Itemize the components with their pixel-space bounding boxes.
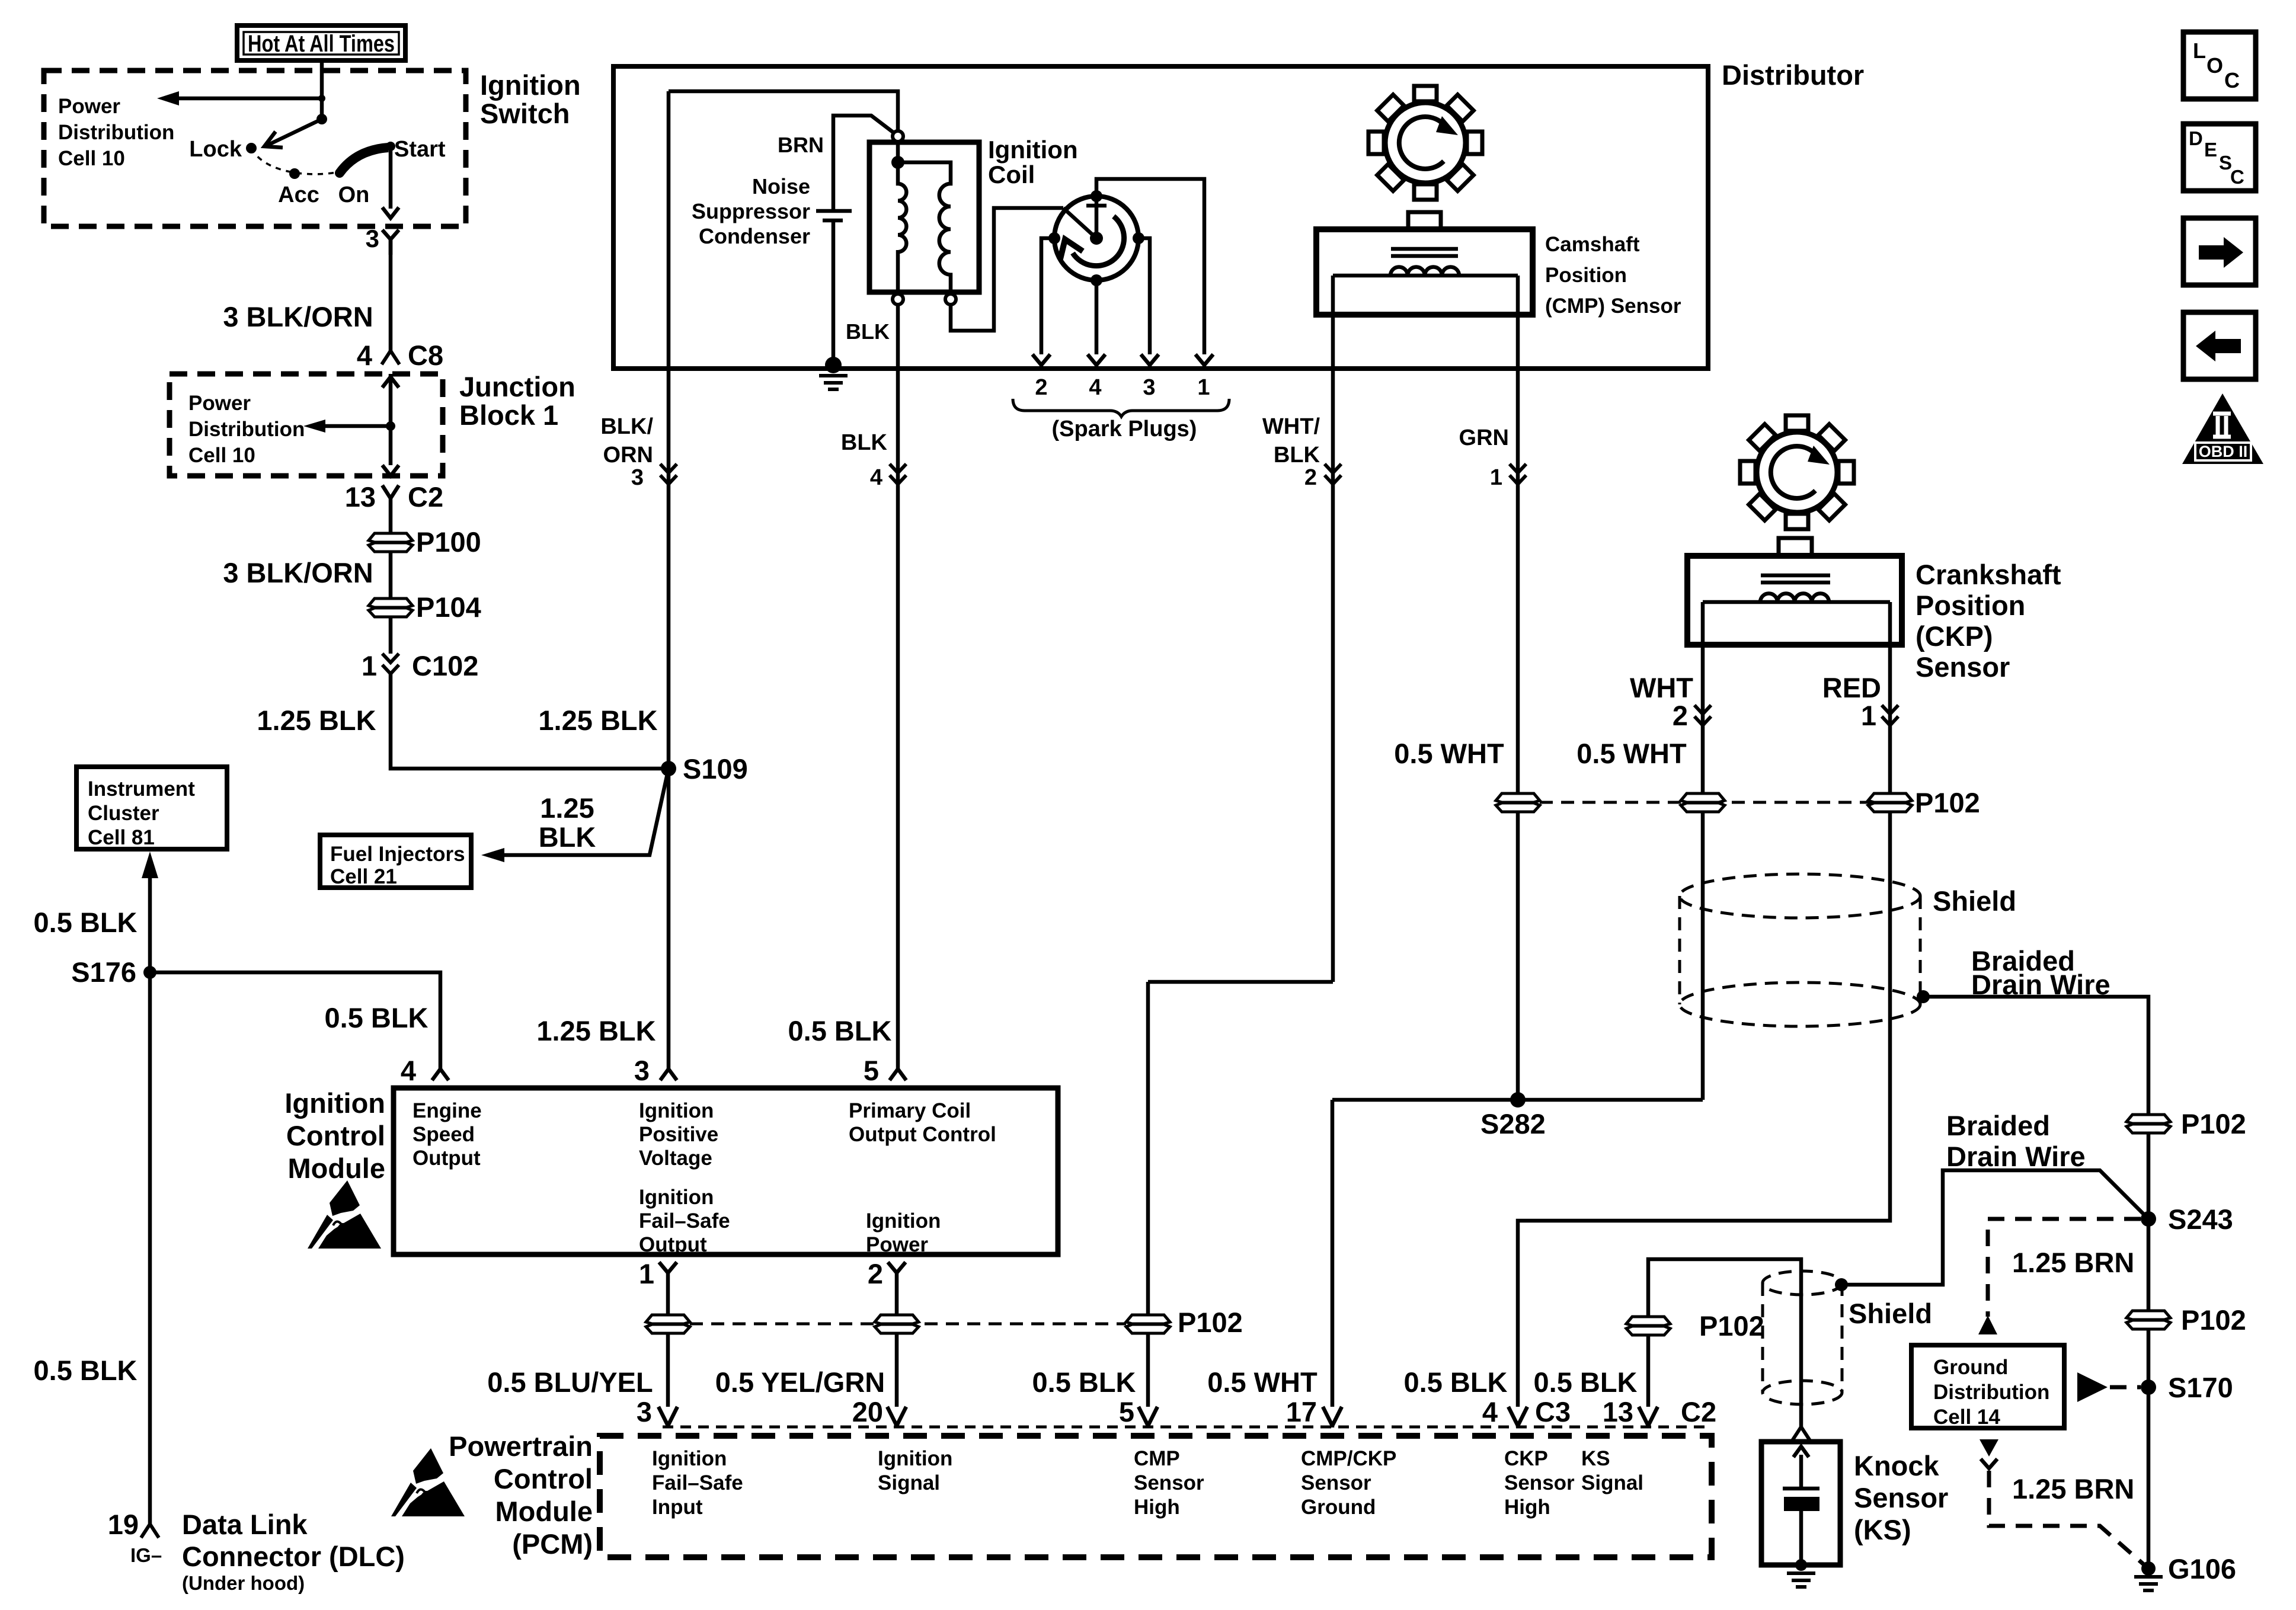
CKP sensor core xyxy=(1761,575,1830,582)
plug wire from right tower xyxy=(1139,238,1150,354)
splice S176 xyxy=(71,956,156,988)
svg-text:E: E xyxy=(2204,139,2217,161)
svg-text:Sensor: Sensor xyxy=(1134,1471,1204,1494)
svg-text:Positive: Positive xyxy=(639,1123,718,1146)
svg-text:Lock: Lock xyxy=(189,137,242,162)
svg-text:Start: Start xyxy=(394,137,446,162)
connector P102 (right upper) xyxy=(2126,1108,2246,1140)
svg-text:Data Link: Data Link xyxy=(182,1509,308,1540)
svg-text:C3: C3 xyxy=(1535,1396,1571,1427)
svg-text:C: C xyxy=(2224,68,2240,92)
svg-text:Power: Power xyxy=(866,1233,928,1256)
svg-text:0.5 BLU/YEL: 0.5 BLU/YEL xyxy=(487,1366,653,1398)
instrument cluster box xyxy=(76,767,227,849)
plug wire from left tower xyxy=(1041,238,1054,354)
svg-text:13: 13 xyxy=(1603,1396,1633,1427)
svg-text:Speed: Speed xyxy=(412,1123,475,1146)
svg-text:3: 3 xyxy=(1143,375,1155,400)
svg-text:Ignition: Ignition xyxy=(639,1186,714,1209)
svg-text:CMP: CMP xyxy=(1134,1447,1180,1470)
svg-text:1: 1 xyxy=(639,1258,654,1289)
coil primary winding xyxy=(898,142,906,294)
ground at distributor body xyxy=(819,319,890,389)
svg-text:3: 3 xyxy=(637,1396,652,1427)
CMP sensor tab xyxy=(1408,212,1441,229)
svg-text:(KS): (KS) xyxy=(1854,1514,1911,1545)
svg-text:OBD II: OBD II xyxy=(2199,443,2248,460)
plug wire from top tower xyxy=(1096,179,1204,354)
noise suppressor condenser xyxy=(692,174,852,358)
OBD II icon xyxy=(2182,393,2263,464)
svg-text:2: 2 xyxy=(868,1258,883,1289)
wire from Start down out of switch xyxy=(382,146,399,218)
svg-text:Signal: Signal xyxy=(878,1471,940,1494)
Lock contact xyxy=(189,137,257,162)
label Camshaft Position (CMP) Sensor xyxy=(1545,233,1681,318)
svg-text:Ignition: Ignition xyxy=(284,1087,385,1119)
distributor box xyxy=(613,66,1708,369)
KS signal wire PCM pin 13 to knock sensor xyxy=(1534,1259,1802,1427)
Hot At All Times box xyxy=(237,25,405,60)
svg-text:Ignition: Ignition xyxy=(652,1447,727,1470)
svg-text:Voltage: Voltage xyxy=(639,1147,712,1170)
svg-text:17: 17 xyxy=(1286,1396,1317,1427)
svg-text:BLK: BLK xyxy=(539,821,596,853)
svg-text:Module: Module xyxy=(288,1153,385,1184)
svg-text:Drain Wire: Drain Wire xyxy=(1946,1141,2086,1172)
svg-text:(PCM): (PCM) xyxy=(512,1528,593,1560)
wire from S109 to fuel injectors arrow xyxy=(481,769,669,862)
coil secondary lead to rotor xyxy=(951,208,1063,331)
svg-text:Ground: Ground xyxy=(1301,1496,1376,1519)
svg-text:3: 3 xyxy=(631,465,644,490)
svg-text:IG–: IG– xyxy=(130,1544,162,1566)
svg-text:S170: S170 xyxy=(2168,1372,2233,1403)
svg-text:0.5 BLK: 0.5 BLK xyxy=(34,1355,137,1386)
svg-text:1.25 BLK: 1.25 BLK xyxy=(538,705,657,736)
ignition coil box xyxy=(869,142,979,292)
PCM pin 3 label Ignition Fail-Safe Input xyxy=(652,1447,743,1519)
svg-text:Noise: Noise xyxy=(752,174,810,199)
svg-text:C2: C2 xyxy=(1681,1396,1716,1427)
spark plug terminal 3 xyxy=(1141,354,1159,369)
svg-text:13: 13 xyxy=(345,481,376,513)
wire up into instrument cluster xyxy=(34,852,159,972)
svg-text:Output: Output xyxy=(639,1233,707,1256)
svg-text:3: 3 xyxy=(634,1055,650,1086)
svg-text:3 BLK/ORN: 3 BLK/ORN xyxy=(223,557,373,588)
svg-text:CMP/CKP: CMP/CKP xyxy=(1301,1447,1396,1470)
ignition feed wire inside distributor xyxy=(669,91,898,132)
label Powertrain Control Module (PCM) xyxy=(449,1430,593,1560)
svg-text:4: 4 xyxy=(401,1055,416,1086)
svg-text:C8: C8 xyxy=(408,340,443,371)
svg-text:Coil: Coil xyxy=(988,161,1035,188)
svg-text:Output: Output xyxy=(412,1147,481,1170)
wire 3 BLK/ORN down to C8 xyxy=(389,239,393,352)
svg-text:BLK/: BLK/ xyxy=(600,414,653,439)
svg-text:0.5 BLK: 0.5 BLK xyxy=(1404,1366,1508,1398)
svg-text:Shield: Shield xyxy=(1933,885,2016,917)
svg-text:L: L xyxy=(2193,39,2206,63)
svg-text:Sensor: Sensor xyxy=(1504,1471,1575,1494)
svg-text:0.5 BLK: 0.5 BLK xyxy=(1534,1366,1638,1398)
switch wiper arm toward Lock xyxy=(264,119,322,148)
spark plugs brace xyxy=(1013,399,1229,417)
wire RED from CKP sensor (pin 1) xyxy=(1518,602,1912,1407)
svg-text:ORN: ORN xyxy=(603,443,653,468)
svg-text:Ignition: Ignition xyxy=(878,1447,952,1470)
svg-text:1: 1 xyxy=(1490,465,1502,490)
CMP sensor box xyxy=(1316,229,1533,315)
svg-text:Position: Position xyxy=(1545,264,1627,287)
ICM pin 5 label Primary Coil Output Control xyxy=(849,1099,996,1146)
spark plug terminal 2 xyxy=(1032,354,1050,369)
svg-text:P100: P100 xyxy=(416,526,481,558)
svg-text:Braided: Braided xyxy=(1946,1110,2050,1141)
svg-text:C: C xyxy=(2230,166,2244,188)
svg-text:High: High xyxy=(1134,1496,1180,1519)
label Knock Sensor (KS) xyxy=(1854,1450,1948,1545)
PCM connector dashed line xyxy=(663,1426,1712,1429)
svg-text:Sensor: Sensor xyxy=(1916,651,2010,683)
svg-text:Cluster: Cluster xyxy=(88,802,159,825)
svg-text:Hot At All Times: Hot At All Times xyxy=(248,31,395,57)
svg-text:Cell 10: Cell 10 xyxy=(58,147,125,170)
PCM pin 5 xyxy=(1119,1396,1157,1427)
svg-text:1.25 BLK: 1.25 BLK xyxy=(257,705,376,736)
PCM pin 4 label CKP Sensor High xyxy=(1504,1447,1575,1519)
plug wire from bottom tower xyxy=(1095,280,1099,354)
svg-text:Module: Module xyxy=(495,1496,593,1527)
svg-text:Cell 81: Cell 81 xyxy=(88,826,155,849)
svg-text:Cell 10: Cell 10 xyxy=(188,444,255,467)
svg-text:CKP: CKP xyxy=(1504,1447,1548,1470)
svg-text:P102: P102 xyxy=(1178,1307,1243,1338)
svg-text:Drain Wire: Drain Wire xyxy=(1971,969,2110,1000)
splice S243 xyxy=(2141,1204,2233,1235)
svg-text:4: 4 xyxy=(870,465,882,490)
wire CMP signal jog to PCM pin 5 xyxy=(1148,980,1333,984)
svg-text:RED: RED xyxy=(1822,672,1881,703)
svg-text:Shield: Shield xyxy=(1849,1298,1932,1329)
label Ignition Switch xyxy=(480,69,581,129)
svg-text:1.25: 1.25 xyxy=(540,792,594,824)
svg-text:Fuel Injectors: Fuel Injectors xyxy=(330,843,465,866)
ICM pin 5 xyxy=(864,1055,906,1086)
ESD symbol (PCM) xyxy=(391,1448,465,1516)
PCM pin 3 xyxy=(637,1396,677,1427)
connector C8 xyxy=(357,340,443,371)
wire to S243 xyxy=(2147,1133,2151,1219)
label Data Link Connector (DLC) xyxy=(182,1509,405,1594)
fuel injectors box xyxy=(320,835,471,888)
svg-text:0.5 BLK: 0.5 BLK xyxy=(325,1002,428,1033)
P102 dashed connector line (ICM harness) xyxy=(690,1307,1243,1338)
svg-text:0.5 YEL/GRN: 0.5 YEL/GRN xyxy=(715,1366,885,1398)
svg-text:4: 4 xyxy=(357,340,372,371)
On contact xyxy=(335,168,369,207)
PCM pin 17 label CMP/CKP Sensor Ground xyxy=(1301,1447,1396,1519)
svg-text:S282: S282 xyxy=(1480,1108,1546,1140)
pin 3 below ignition switch xyxy=(366,225,399,255)
svg-text:Ignition: Ignition xyxy=(988,136,1078,164)
svg-text:4: 4 xyxy=(1089,375,1101,400)
svg-text:20: 20 xyxy=(852,1396,883,1427)
svg-text:1.25 BLK: 1.25 BLK xyxy=(536,1015,655,1046)
svg-text:BLK: BLK xyxy=(846,319,890,344)
svg-text:O: O xyxy=(2207,53,2223,78)
svg-text:S176: S176 xyxy=(71,956,136,988)
svg-text:1.25 BRN: 1.25 BRN xyxy=(2012,1473,2134,1505)
ICM pin 2 wire to PCM pin 20 xyxy=(715,1258,919,1407)
svg-text:Sensor: Sensor xyxy=(1301,1471,1371,1494)
PCM pin 17 xyxy=(1286,1396,1342,1427)
cap tower node top xyxy=(1091,190,1102,202)
switch lever arc On-Start xyxy=(340,137,446,173)
svg-text:Junction: Junction xyxy=(459,371,575,402)
svg-text:0.5 WHT: 0.5 WHT xyxy=(1207,1366,1318,1398)
Acc contact xyxy=(278,168,319,207)
svg-text:C102: C102 xyxy=(412,650,478,681)
svg-text:P102: P102 xyxy=(1699,1310,1764,1342)
svg-text:Connector (DLC): Connector (DLC) xyxy=(182,1541,405,1572)
svg-text:1: 1 xyxy=(1861,700,1876,731)
ESD symbol (ICM) xyxy=(308,1180,381,1249)
svg-text:G106: G106 xyxy=(2168,1553,2236,1585)
connector C102 xyxy=(362,650,479,681)
ignition switch dashed box xyxy=(44,71,466,226)
cap tower node right xyxy=(1133,232,1144,244)
BRN wire to coil + terminal xyxy=(778,116,894,211)
cap tower node left xyxy=(1048,232,1060,244)
svg-text:High: High xyxy=(1504,1496,1550,1519)
svg-text:BLK: BLK xyxy=(1274,443,1320,468)
label Power Distribution Cell 10 (ignition switch) xyxy=(58,95,174,170)
CKP shield cylinder xyxy=(1680,874,2016,1026)
svg-text:0.5 BLK: 0.5 BLK xyxy=(1032,1366,1136,1398)
svg-text:Engine: Engine xyxy=(412,1099,482,1122)
wire BLK from coil primary to ICM pin 5 xyxy=(788,305,907,1069)
PCM pin 20 label Ignition Signal xyxy=(878,1447,952,1494)
svg-text:BRN: BRN xyxy=(778,133,824,157)
svg-text:C2: C2 xyxy=(408,481,443,513)
svg-text:Distribution: Distribution xyxy=(1933,1381,2049,1404)
svg-text:WHT/: WHT/ xyxy=(1262,414,1320,439)
junction block 1 dashed box xyxy=(170,374,443,476)
KS shield cylinder xyxy=(1763,1271,1932,1404)
DLC pin 19 xyxy=(108,1509,162,1566)
svg-text:2: 2 xyxy=(1673,700,1688,731)
knock sensor connector xyxy=(1792,1427,1810,1441)
svg-text:Sensor: Sensor xyxy=(1854,1482,1948,1513)
svg-text:Block 1: Block 1 xyxy=(459,399,558,431)
svg-text:Acc: Acc xyxy=(278,183,319,207)
svg-text:Crankshaft: Crankshaft xyxy=(1916,559,2061,590)
svg-text:0.5 BLK: 0.5 BLK xyxy=(788,1015,892,1046)
svg-text:On: On xyxy=(338,183,370,207)
svg-text:Control: Control xyxy=(286,1120,385,1151)
svg-text:0.5 WHT: 0.5 WHT xyxy=(1576,738,1687,769)
svg-text:(CKP): (CKP) xyxy=(1916,620,1993,652)
ground distribution dashed wire from S243 xyxy=(1978,1219,2141,1334)
svg-text:Instrument: Instrument xyxy=(88,777,195,801)
CMP sensor frame xyxy=(1333,274,1518,278)
wire down to PCM pin 5 xyxy=(1146,982,1150,1407)
svg-text:S243: S243 xyxy=(2168,1204,2233,1235)
svg-text:Ignition: Ignition xyxy=(639,1099,714,1122)
svg-text:Primary Coil: Primary Coil xyxy=(849,1099,971,1122)
knock sensor box xyxy=(1761,1442,1840,1565)
braided drain wire from CKP shield xyxy=(1917,945,2148,1125)
LOC icon xyxy=(2183,32,2256,99)
svg-text:BLK: BLK xyxy=(841,430,888,455)
svg-text:Switch: Switch xyxy=(480,98,570,129)
svg-text:Control: Control xyxy=(494,1463,593,1494)
P102 dashed line (engine harness) xyxy=(1540,801,1889,804)
svg-text:P104: P104 xyxy=(416,591,481,623)
wire to C102 xyxy=(389,617,393,654)
coil primary output terminal xyxy=(893,294,903,305)
ICM pin 1 wire to PCM pin 3 xyxy=(487,1258,690,1407)
svg-text:KS: KS xyxy=(1581,1447,1610,1470)
svg-text:P102: P102 xyxy=(2181,1108,2246,1140)
PCM pin 4 C3 xyxy=(1482,1396,1571,1427)
connector C2 (13) xyxy=(345,481,443,517)
svg-text:P102: P102 xyxy=(1915,787,1980,818)
splice S109 xyxy=(661,753,748,785)
ICM pin 2 label Ignition Power xyxy=(866,1209,941,1256)
svg-text:Knock: Knock xyxy=(1854,1450,1940,1481)
wire from Hot At All Times into ignition switch xyxy=(320,60,324,119)
wire WHT from CKP sensor (pin 2) xyxy=(1630,602,1725,1100)
wire to P100 xyxy=(389,517,393,533)
cap center electrode link xyxy=(1086,196,1107,238)
svg-text:Fail–Safe: Fail–Safe xyxy=(652,1471,743,1494)
svg-text:Camshaft: Camshaft xyxy=(1545,233,1640,256)
main ground wire S243 to G106 xyxy=(2147,1219,2151,1569)
splice S170 xyxy=(2141,1372,2233,1403)
svg-text:3 BLK/ORN: 3 BLK/ORN xyxy=(223,301,373,332)
svg-text:0.5 WHT: 0.5 WHT xyxy=(1394,738,1504,769)
dashed detent arc Lock-Acc-On xyxy=(251,148,336,174)
svg-text:Fail–Safe: Fail–Safe xyxy=(639,1209,730,1233)
coil secondary winding xyxy=(898,162,951,294)
svg-text:Position: Position xyxy=(1916,590,2025,621)
ignition control module box xyxy=(394,1088,1058,1254)
arrow from ground distribution to S170 xyxy=(2077,1372,2141,1402)
svg-text:1: 1 xyxy=(1197,375,1210,400)
cap tower node bottom xyxy=(1091,274,1102,286)
svg-text:Power: Power xyxy=(188,392,251,415)
CKP sensor frame xyxy=(1703,600,1890,604)
ICM pin 3 label Ignition Positive Voltage xyxy=(639,1099,718,1170)
connector P100 xyxy=(369,526,481,558)
power distribution arrow (junction block) xyxy=(303,420,391,433)
svg-text:(CMP) Sensor: (CMP) Sensor xyxy=(1545,295,1681,318)
svg-text:Cell 14: Cell 14 xyxy=(1933,1406,2000,1429)
ICM pin 4 xyxy=(401,1055,449,1086)
wire down with arrow to junction block bottom xyxy=(382,426,399,476)
label Junction Block 1 xyxy=(459,371,575,431)
cap center node xyxy=(1090,232,1103,245)
wire from distributor (S109 column) to ICM pin 3 xyxy=(536,91,677,1069)
ground distribution dashed wire to G106 xyxy=(1980,1439,2144,1564)
PCM pin 17 wire from S282 xyxy=(1331,1100,1335,1407)
connector P102 (right lower) xyxy=(2126,1304,2246,1336)
svg-text:WHT: WHT xyxy=(1630,672,1693,703)
powertrain control module dashed box xyxy=(600,1436,1712,1557)
svg-text:Output Control: Output Control xyxy=(849,1123,996,1146)
PCM pin 13 label KS Signal xyxy=(1581,1447,1643,1494)
wire through junction block with up arrow xyxy=(382,374,399,426)
svg-text:Distributor: Distributor xyxy=(1722,59,1864,91)
PCM pin 13 C2 xyxy=(1603,1396,1716,1427)
CKP sensor winding xyxy=(1760,593,1829,602)
wire S176 to ICM pin 4 xyxy=(150,972,440,1069)
splice S282 xyxy=(1332,1092,1703,1140)
svg-text:Powertrain: Powertrain xyxy=(449,1430,593,1462)
power distribution arrow (ignition switch) xyxy=(157,91,325,105)
distributor cap circle xyxy=(1054,196,1139,280)
wire S176 down to DLC xyxy=(34,972,151,1524)
PCM pin 5 label CMP Sensor High xyxy=(1134,1447,1204,1519)
svg-text:(Under hood): (Under hood) xyxy=(182,1572,305,1594)
svg-text:Distribution: Distribution xyxy=(188,418,305,441)
back arrow icon xyxy=(2183,312,2256,379)
knock sensor element xyxy=(1783,1446,1819,1587)
svg-text:Distribution: Distribution xyxy=(58,121,174,144)
CMP sensor winding xyxy=(1390,267,1459,276)
CKP gear xyxy=(1740,415,1854,529)
svg-text:Ground: Ground xyxy=(1933,1356,2008,1379)
label Power Distribution Cell 10 (junction block) xyxy=(188,392,305,467)
switch pivot node xyxy=(316,114,327,124)
ICM pin 4 label Engine Speed Output xyxy=(412,1099,482,1170)
rotation arrow in cap xyxy=(1060,216,1124,266)
ground distribution cell 14 box xyxy=(1911,1345,2064,1429)
connector P104 xyxy=(369,591,481,623)
svg-text:5: 5 xyxy=(1119,1396,1134,1427)
wire WHT/BLK from CMP sensor (pin 2) xyxy=(1262,276,1341,982)
junction node in junction block xyxy=(386,421,395,431)
svg-text:Condenser: Condenser xyxy=(699,224,810,248)
svg-text:2: 2 xyxy=(1304,465,1317,490)
CMP gear xyxy=(1368,86,1482,200)
svg-text:Ignition: Ignition xyxy=(480,69,581,101)
svg-text:Input: Input xyxy=(652,1496,703,1519)
forward arrow icon xyxy=(2183,218,2256,285)
svg-text:5: 5 xyxy=(864,1055,879,1086)
svg-text:Suppressor: Suppressor xyxy=(692,199,810,223)
coil internal node xyxy=(891,156,904,169)
svg-text:Power: Power xyxy=(58,95,120,118)
svg-text:Ignition: Ignition xyxy=(866,1209,941,1233)
svg-text:0.5 BLK: 0.5 BLK xyxy=(34,907,137,938)
svg-text:(Spark Plugs): (Spark Plugs) xyxy=(1052,417,1197,441)
svg-text:Signal: Signal xyxy=(1581,1471,1643,1494)
CKP sensor box xyxy=(1687,556,1902,645)
coil secondary output terminal xyxy=(945,294,956,305)
label Crankshaft Position (CKP) Sensor xyxy=(1916,559,2061,683)
CKP sensor tab xyxy=(1779,538,1812,556)
ICM pin 3 xyxy=(634,1055,677,1086)
svg-text:1: 1 xyxy=(362,650,377,681)
svg-text:19: 19 xyxy=(108,1509,139,1540)
rotor arm xyxy=(1063,208,1096,238)
svg-text:Cell 21: Cell 21 xyxy=(330,865,397,888)
svg-text:3: 3 xyxy=(366,225,379,252)
